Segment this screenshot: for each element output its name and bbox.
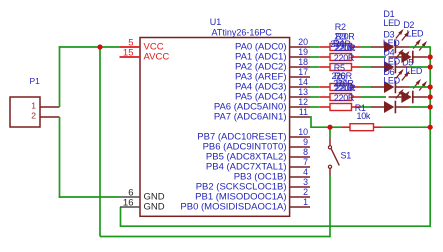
label R3 + 220R overlapped bbox=[334, 31, 355, 41]
svg-text:PB0 (MOSIDISDAOC1A): PB0 (MOSIDISDAOC1A) bbox=[180, 202, 286, 213]
wire D1 cathode to rail bbox=[410, 46, 430, 48]
svg-text:3: 3 bbox=[303, 177, 308, 187]
svg-text:1: 1 bbox=[303, 197, 308, 207]
wire VCC horizontal bbox=[59, 46, 120, 48]
wire node to S1 bbox=[329, 127, 331, 138]
svg-text:2: 2 bbox=[31, 111, 36, 121]
label R7 + 220R overlapped bbox=[333, 78, 354, 88]
svg-text:LED: LED bbox=[383, 57, 400, 67]
svg-text:PA7 (ADC6AIN1): PA7 (ADC6AIN1) bbox=[214, 112, 287, 123]
svg-text:2: 2 bbox=[303, 187, 308, 197]
wire D2 cathode to rail bbox=[427, 56, 430, 58]
svg-text:9: 9 bbox=[303, 137, 308, 147]
wire bottom GND rail bbox=[120, 225, 431, 227]
svg-text:R7: R7 bbox=[336, 78, 347, 88]
junction LED rail bbox=[428, 54, 433, 59]
resistor R7 220R (row PA5) bbox=[320, 93, 361, 103]
svg-text:LED: LED bbox=[383, 38, 400, 48]
resistor R8 (row PA6) bbox=[320, 104, 361, 111]
svg-text:8: 8 bbox=[303, 147, 308, 157]
svg-text:P1: P1 bbox=[30, 76, 41, 86]
svg-text:LED: LED bbox=[383, 18, 400, 28]
svg-text:11: 11 bbox=[299, 107, 308, 117]
resistor R6 220R (row PA4) bbox=[320, 83, 361, 93]
junction VCC node bbox=[97, 44, 102, 49]
svg-text:1: 1 bbox=[31, 100, 36, 110]
pin 4 PB3 (OC1B) bbox=[234, 167, 310, 182]
pin 3 PB2 (SCKSCLOC1B) bbox=[196, 177, 310, 192]
svg-text:16: 16 bbox=[123, 197, 134, 208]
wire resistor to D4 anode bbox=[361, 86, 372, 88]
junction LED rail bbox=[428, 84, 433, 89]
junction LED rail bbox=[428, 104, 433, 109]
wire R1 to LED rail bbox=[382, 126, 431, 128]
pin 7 PB4 (ADC7XTAL1) bbox=[206, 157, 310, 172]
pin 10 PB7 (ADC10RESET) bbox=[197, 127, 310, 142]
junction LED rail bbox=[428, 94, 433, 99]
pin 14 PA4 (ADC3) bbox=[235, 77, 310, 92]
svg-text:7: 7 bbox=[303, 157, 308, 167]
pin 13 PA5 (ADC4) bbox=[235, 87, 310, 102]
label R4 + 220R overlapped bbox=[330, 39, 351, 49]
wire D6 cathode to rail bbox=[410, 106, 430, 108]
IC U1 ATtiny26-16PC body bbox=[140, 38, 290, 217]
wire pin 19 to resistor bbox=[310, 56, 320, 58]
connector P1 bbox=[10, 76, 60, 127]
wire S1 to bottom rail bbox=[329, 176, 331, 237]
pin 18 PA2 (ADC2) bbox=[235, 57, 310, 72]
switch S1 bbox=[328, 138, 339, 176]
pin 11 PA7 (ADC6AIN1) bbox=[214, 107, 310, 122]
pin 2 PB1 (MISODOOC1A) bbox=[195, 187, 310, 202]
wire GND horizontal to pin6 bbox=[59, 196, 120, 198]
svg-text:LED: LED bbox=[383, 75, 400, 85]
svg-text:LED: LED bbox=[407, 28, 424, 38]
wire pin 18 to resistor bbox=[310, 66, 320, 68]
wire pin 11 elbow to R1 node bbox=[310, 117, 330, 127]
pin 5 VCC bbox=[120, 38, 164, 53]
svg-text:AVCC: AVCC bbox=[144, 52, 170, 63]
wire D4 cathode to rail bbox=[410, 86, 430, 88]
junction LED rail bbox=[428, 64, 433, 69]
LED D2 bbox=[389, 39, 428, 63]
svg-text:220R: 220R bbox=[334, 93, 355, 103]
wire pin16 drop bbox=[120, 207, 122, 226]
svg-text:ATtiny26-16PC: ATtiny26-16PC bbox=[212, 28, 273, 38]
svg-text:17: 17 bbox=[298, 67, 308, 77]
wire P1 pin2 drop bbox=[59, 117, 61, 198]
pin 1 PB0 (MOSIDISDAOC1A) bbox=[180, 197, 310, 212]
svg-text:20: 20 bbox=[298, 37, 308, 47]
LED D4 bbox=[371, 69, 410, 93]
pin 20 PA0 (ADC0) bbox=[235, 37, 310, 52]
wire pin 14 to resistor bbox=[310, 86, 320, 88]
svg-text:S1: S1 bbox=[341, 151, 352, 161]
wire resistor to D3 anode bbox=[361, 66, 372, 68]
resistor R3 220R (row PA1) bbox=[320, 53, 361, 63]
svg-text:18: 18 bbox=[298, 57, 308, 67]
junction node R1/S1 bbox=[327, 125, 332, 130]
svg-text:R4: R4 bbox=[333, 39, 344, 49]
LED D6 bbox=[371, 89, 410, 113]
wire pin 13 to resistor bbox=[310, 96, 320, 98]
LED D5 bbox=[389, 79, 428, 103]
wire resistor to D1 anode bbox=[361, 46, 372, 48]
svg-text:19: 19 bbox=[298, 47, 308, 57]
wire pin 12 to resistor bbox=[310, 106, 320, 108]
resistor R2 220R (row PA0) bbox=[320, 43, 361, 53]
svg-text:14: 14 bbox=[298, 77, 308, 87]
wire resistor to D5 anode bbox=[361, 96, 387, 98]
wire P1 pin1 riser to VCC bbox=[59, 46, 61, 107]
svg-text:4: 4 bbox=[303, 167, 308, 177]
pin 6 GND bbox=[120, 187, 165, 202]
wire pin 20 to resistor bbox=[310, 46, 320, 48]
pin 19 PA1 (ADC1) bbox=[235, 47, 310, 62]
svg-text:13: 13 bbox=[298, 87, 308, 97]
svg-text:U1: U1 bbox=[210, 17, 222, 27]
pin 17 PA3 (AREF) bbox=[235, 67, 310, 82]
wire LED cathode rail bbox=[429, 46, 431, 227]
wire resistor to D6 anode bbox=[361, 106, 372, 108]
svg-text:12: 12 bbox=[298, 97, 308, 107]
wire resistor to D2 anode bbox=[361, 56, 387, 58]
wire D3 cathode to rail bbox=[410, 66, 430, 68]
svg-text:10k: 10k bbox=[357, 111, 371, 121]
svg-text:GND: GND bbox=[144, 202, 165, 213]
LED D1 bbox=[371, 29, 410, 53]
svg-text:220R: 220R bbox=[334, 53, 355, 63]
junction R1 rail bbox=[428, 125, 433, 130]
pin 15 AVCC bbox=[120, 48, 170, 63]
pin 16 GND bbox=[120, 197, 165, 212]
LED D3 bbox=[371, 49, 410, 73]
svg-text:10: 10 bbox=[298, 127, 308, 137]
wire VCC drop to switch rail bbox=[99, 47, 101, 237]
wire bottom switch rail bbox=[100, 236, 330, 238]
svg-text:15: 15 bbox=[123, 48, 134, 59]
pin 12 PA6 (ADC5AIN0) bbox=[214, 97, 310, 112]
pin 8 PB5 (ADC8XTAL2) bbox=[206, 147, 310, 162]
label R6 + 220R overlapped bbox=[332, 71, 353, 81]
resistor R5 (row PA2) bbox=[320, 63, 361, 73]
pin 9 PB6 (ADC9INT0T0) bbox=[203, 137, 310, 152]
wire D5 cathode to rail bbox=[427, 96, 430, 98]
resistor R1 10k bbox=[330, 124, 382, 131]
